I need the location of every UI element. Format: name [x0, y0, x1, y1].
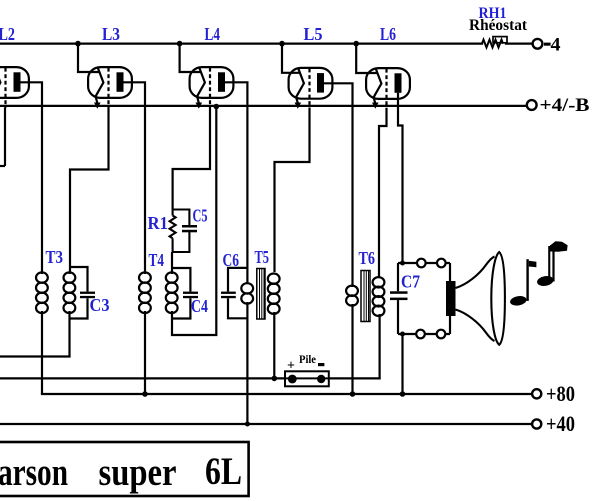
transformer T6 primary — [346, 286, 358, 394]
svg-text:C7: C7 — [401, 272, 420, 292]
wire L6 grid to T6 secondary — [379, 109, 387, 278]
resistor R1 — [170, 210, 176, 253]
svg-text:Rhéostat: Rhéostat — [469, 17, 528, 34]
triode L6 — [366, 68, 410, 109]
svg-text:+80: +80 — [546, 381, 575, 406]
junction T6 primary to +80 rail — [350, 391, 356, 397]
wire +80 rail — [42, 393, 532, 395]
wire L6 plate to speaker loop — [398, 93, 403, 263]
wire after rheostat to -4 terminal — [506, 42, 531, 44]
svg-text:Pile: Pile — [299, 354, 316, 366]
capacitor C3 — [70, 267, 88, 319]
svg-text:super: super — [99, 451, 177, 494]
wire bus B (+4/-B filament return) — [0, 105, 527, 107]
wire T3 secondary return (left edge) — [0, 355, 70, 357]
wire L4 plate to T5 primary / C6 — [225, 82, 247, 284]
svg-text:+40: +40 — [546, 411, 575, 436]
svg-text:C4: C4 — [191, 296, 208, 316]
speaker loop wires — [398, 263, 450, 394]
junction T4 return on bus B — [214, 104, 220, 110]
capacitor C5 — [173, 210, 190, 253]
terminal -4 — [533, 39, 543, 49]
svg-text:L2: L2 — [0, 24, 15, 44]
svg-text:4: 4 — [551, 35, 562, 56]
musical note 1 — [509, 259, 536, 307]
svg-text:L6: L6 — [380, 24, 396, 44]
triode L3 — [88, 67, 132, 109]
wire L4 grid to R1C5 — [173, 108, 210, 210]
wire battery line left — [0, 377, 285, 379]
speaker horn — [456, 252, 505, 345]
transformer T3 secondary — [64, 272, 76, 357]
junction battery line / T5 secondary — [272, 376, 278, 382]
wire L3 plate to T4 primary — [124, 82, 146, 270]
junction T5 primary to +40 rail — [245, 422, 250, 427]
svg-text:L4: L4 — [205, 24, 221, 44]
speaker driver block — [446, 281, 456, 316]
triode L2 (partially cut at left edge) — [0, 67, 29, 166]
svg-text:6L: 6L — [205, 450, 242, 493]
wire L2 plate to T3 primary — [21, 82, 43, 270]
junction L6 plate at loop — [400, 261, 405, 266]
transformer T5 primary — [241, 283, 253, 424]
transformer T5 secondary — [268, 274, 280, 379]
speaker terminals bottom — [416, 330, 425, 339]
svg-text:C5: C5 — [193, 206, 208, 226]
capacitor C6 — [228, 268, 247, 318]
musical note 2 — [536, 241, 567, 287]
transformer T4 primary — [139, 270, 151, 394]
core T6 — [361, 271, 370, 322]
svg-text:L5: L5 — [304, 24, 323, 44]
capacitor C4 — [172, 268, 190, 319]
wire L5 plate to T6 primary — [324, 83, 353, 287]
wire bus A tap to L3 filament — [75, 41, 99, 72]
svg-text:arson: arson — [0, 451, 68, 494]
wire L3 grid to T3 secondary — [70, 108, 109, 273]
transformer T6 secondary — [373, 277, 385, 378]
svg-text:T6: T6 — [359, 248, 376, 268]
transformer T4 secondary — [166, 107, 217, 335]
svg-text:+: + — [287, 359, 295, 374]
wire battery to T6 secondary — [329, 377, 380, 379]
svg-text:C6: C6 — [223, 250, 240, 270]
title box — [0, 442, 249, 496]
triode L5 — [289, 68, 333, 109]
terminal +80 — [532, 389, 541, 398]
svg-text:C3: C3 — [90, 295, 110, 315]
svg-text:T3: T3 — [46, 247, 64, 267]
rheostat RH1 — [482, 37, 507, 48]
wire +40 rail — [0, 423, 532, 425]
terminal +40 — [532, 419, 541, 428]
wire bus A tap to L6 filament — [353, 41, 377, 73]
terminal +4/-B — [527, 100, 537, 110]
core T5 — [257, 269, 265, 320]
junction T4 primary to +80 rail — [142, 391, 148, 397]
svg-text:T4: T4 — [149, 250, 165, 270]
svg-text:R1: R1 — [148, 213, 169, 233]
transformer T3 primary — [36, 270, 48, 394]
svg-text:L3: L3 — [102, 24, 120, 44]
speaker terminals top — [417, 259, 426, 268]
wire top filament bus A — [0, 42, 482, 44]
wire bus A tap to L5 filament — [279, 41, 300, 73]
junction speaker bottom to +80 rail — [400, 391, 406, 397]
battery Pile — [285, 371, 329, 386]
wire L5 grid to T5 secondary — [275, 108, 310, 273]
svg-text:T5: T5 — [255, 247, 270, 267]
label minus — [318, 363, 324, 366]
svg-text:+4/-B: +4/-B — [540, 95, 590, 116]
wire bus A tap to L4 filament — [177, 41, 201, 72]
triode L4 — [190, 67, 234, 109]
capacitor C7 — [397, 263, 399, 334]
